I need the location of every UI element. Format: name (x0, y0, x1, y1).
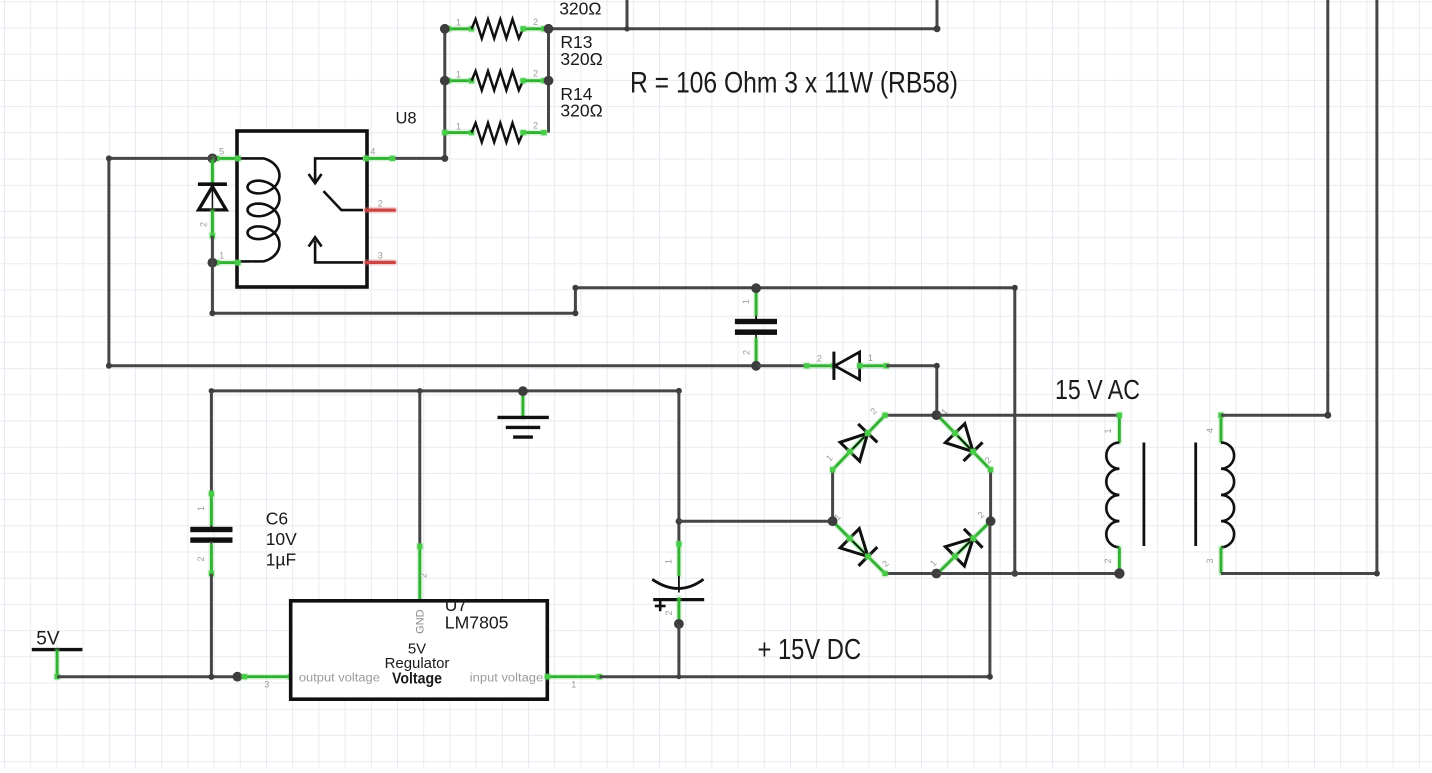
svg-text:1: 1 (456, 121, 461, 131)
svg-text:+ 15V DC: + 15V DC (758, 634, 862, 666)
svg-text:2: 2 (742, 350, 752, 355)
svg-text:1: 1 (1103, 428, 1113, 433)
svg-text:3: 3 (378, 250, 383, 260)
svg-text:1: 1 (219, 251, 224, 261)
svg-text:1: 1 (196, 506, 206, 511)
svg-text:1: 1 (741, 299, 751, 304)
svg-text:1: 1 (663, 559, 673, 564)
svg-text:U8: U8 (396, 110, 417, 128)
svg-text:320Ω: 320Ω (560, 49, 602, 69)
svg-text:input voltage: input voltage (470, 673, 543, 685)
svg-text:10V: 10V (266, 529, 297, 549)
svg-text:320Ω: 320Ω (559, 0, 601, 19)
svg-text:GND: GND (415, 609, 427, 634)
svg-text:LM7805: LM7805 (445, 613, 509, 633)
svg-text:3: 3 (264, 679, 269, 689)
svg-text:C6: C6 (266, 509, 288, 529)
svg-text:5: 5 (219, 147, 224, 157)
svg-text:320Ω: 320Ω (560, 101, 602, 121)
svg-text:2: 2 (817, 354, 822, 364)
svg-text:15 V AC: 15 V AC (1055, 374, 1140, 405)
svg-text:1µF: 1µF (266, 549, 297, 569)
svg-text:2: 2 (664, 610, 674, 615)
svg-text:2: 2 (1103, 558, 1113, 563)
svg-text:2: 2 (419, 573, 429, 578)
svg-text:2: 2 (533, 69, 538, 79)
svg-text:2: 2 (533, 17, 538, 27)
svg-text:2: 2 (196, 556, 206, 561)
svg-text:2: 2 (533, 121, 538, 131)
svg-text:Voltage: Voltage (392, 670, 442, 687)
svg-text:2: 2 (378, 198, 383, 208)
svg-text:4: 4 (370, 147, 375, 157)
svg-text:1: 1 (456, 18, 461, 28)
svg-text:1: 1 (456, 69, 461, 79)
svg-text:R = 106 Ohm 3 x 11W (RB58): R = 106 Ohm 3 x 11W (RB58) (630, 67, 958, 100)
svg-text:4: 4 (1205, 428, 1215, 433)
svg-text:1: 1 (571, 679, 576, 689)
svg-text:output voltage: output voltage (299, 673, 380, 685)
svg-text:2: 2 (199, 222, 209, 227)
svg-text:5V: 5V (36, 628, 60, 649)
svg-text:3: 3 (1205, 558, 1215, 563)
svg-text:1: 1 (868, 353, 873, 363)
